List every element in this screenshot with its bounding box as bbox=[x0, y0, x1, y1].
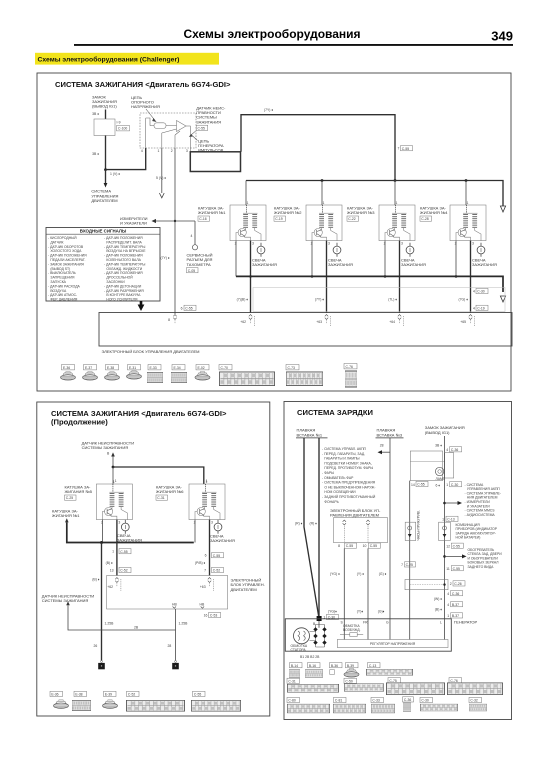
wire: fuse3 down to regulator bbox=[389, 438, 391, 640]
svg-text:(Продолжение): (Продолжение) bbox=[51, 418, 108, 427]
svg-text:ЗАПУСКА: ЗАПУСКА bbox=[50, 280, 66, 284]
svg-text:НОМ ОСВЕЩЕНИИ: НОМ ОСВЕЩЕНИИ bbox=[324, 490, 356, 494]
svg-text:+62: +62 bbox=[240, 320, 246, 324]
node: coil4 tap bbox=[465, 179, 468, 182]
svg-text:4: 4 bbox=[447, 592, 449, 596]
svg-text:C-55: C-55 bbox=[213, 554, 220, 558]
svg-text:ЖИГАНИЯ №6: ЖИГАНИЯ №6 bbox=[156, 489, 184, 494]
svg-text:ЗАЖИГАНИЯ: ЗАЖИГАНИЯ bbox=[117, 538, 142, 543]
svg-text:L: L bbox=[440, 620, 442, 624]
svg-text:C-30: C-30 bbox=[451, 483, 458, 487]
svg-text:- ДАТЧИК РАСХОДА: - ДАТЧИК РАСХОДА bbox=[48, 284, 81, 288]
svg-text:6 ♦: 6 ♦ bbox=[435, 484, 440, 488]
svg-text:ВСТАВКА №3: ВСТАВКА №3 bbox=[377, 432, 403, 437]
wire: coil4 ground to bus bbox=[455, 241, 457, 277]
wire: ECU FR to generator bbox=[343, 548, 345, 639]
arrow: fuse3 loads branch bbox=[378, 450, 391, 454]
ECU pin coil1 bbox=[240, 315, 254, 327]
wire: coil6 ground bbox=[194, 520, 196, 543]
svg-text:(B) ♦: (B) ♦ bbox=[435, 607, 442, 611]
svg-text:(YG)♦: (YG)♦ bbox=[328, 610, 337, 614]
svg-text:ВОЗБУЖД.: ВОЗБУЖД. bbox=[343, 628, 361, 632]
svg-text:(Y)♦: (Y)♦ bbox=[357, 610, 364, 614]
svg-text:C-50: C-50 bbox=[345, 679, 352, 683]
connector row3b: C-50 bbox=[344, 678, 384, 691]
connector row: E-31 bbox=[127, 365, 142, 380]
svg-text:C-52: C-52 bbox=[128, 693, 135, 697]
svg-text:13: 13 bbox=[110, 569, 114, 573]
svg-text:C-25: C-25 bbox=[406, 563, 413, 567]
svg-text:- ДАТЧИК ПОЛОЖЕНИЯ: - ДАТЧИК ПОЛОЖЕНИЯ bbox=[48, 254, 87, 258]
svg-text:ЗАЖИГАНИЯ: ЗАЖИГАНИЯ bbox=[196, 119, 221, 124]
pin label 2 C-26 bbox=[450, 581, 465, 586]
spark plug 6 label bbox=[210, 533, 235, 543]
wire: feed line to coils bbox=[241, 115, 395, 181]
svg-text:- ПЕРЕД. ГАБАРИТЫ, ЗАД.: - ПЕРЕД. ГАБАРИТЫ, ЗАД. bbox=[322, 452, 365, 456]
arrow: to defogger bbox=[445, 554, 467, 558]
svg-text:- ФАРЫ: - ФАРЫ bbox=[322, 471, 334, 475]
connector row3a: C-13 bbox=[366, 663, 412, 676]
svg-text:(R) ♦: (R) ♦ bbox=[295, 522, 303, 526]
svg-text:12: 12 bbox=[446, 544, 450, 548]
field winding resistor bbox=[340, 633, 363, 637]
connector row3c: C-36 bbox=[403, 697, 414, 712]
pin label 1 B-37 bbox=[447, 613, 462, 618]
connector row: C-73 bbox=[286, 365, 323, 386]
svg-text:C-75: C-75 bbox=[389, 679, 396, 683]
svg-text:C-52: C-52 bbox=[213, 569, 220, 573]
svg-text:- ЗАДНИЙ ПРОТИВОТУМАННЫЙ: - ЗАДНИЙ ПРОТИВОТУМАННЫЙ bbox=[322, 495, 376, 499]
pin label 7 C-55 bbox=[398, 146, 413, 151]
svg-text:C-36: C-36 bbox=[451, 448, 458, 452]
svg-text:8: 8 bbox=[168, 318, 170, 322]
wire: feed to coil6 bbox=[113, 467, 204, 484]
wire: ECU G to generator bbox=[367, 548, 369, 639]
ignition coil 3 bbox=[379, 201, 415, 246]
pin label 16 C-53 bbox=[204, 612, 221, 617]
wire: coil1 ground to bus bbox=[235, 241, 237, 277]
svg-text:- ДАТЧИК ПОЛОЖЕНИЯ: - ДАТЧИК ПОЛОЖЕНИЯ bbox=[104, 254, 143, 258]
wire: meter to generator L bbox=[444, 452, 446, 639]
connector row3a: B-16 bbox=[305, 663, 323, 678]
connector row2: C-52 bbox=[126, 691, 184, 711]
svg-text:C-13: C-13 bbox=[369, 664, 376, 668]
svg-text:ЖИГАНИЯ №5: ЖИГАНИЯ №5 bbox=[65, 489, 93, 494]
wire: battery feed a bbox=[304, 438, 319, 618]
svg-text:СИСТЕМА ЗАЖИГАНИЯ <Двигатель 6: СИСТЕМА ЗАЖИГАНИЯ <Двигатель 6G74-GDI> bbox=[55, 80, 231, 89]
svg-text:1: 1 bbox=[447, 614, 449, 618]
svg-text:- ДАТЧИК ПОЛОЖЕНИЯ: - ДАТЧИК ПОЛОЖЕНИЯ bbox=[104, 236, 143, 240]
node: ignition feed junction bbox=[104, 168, 107, 171]
spark plug 2 label bbox=[328, 258, 353, 268]
svg-text:C-53: C-53 bbox=[210, 614, 217, 618]
charge warning lamp bbox=[435, 467, 445, 481]
input signals list left column bbox=[48, 236, 87, 302]
svg-text:C-55: C-55 bbox=[417, 483, 424, 487]
node: coil feed junction bbox=[112, 466, 115, 469]
wire: bus to coil3 pin1 bbox=[394, 181, 396, 206]
svg-text:(7Y) ♦: (7Y) ♦ bbox=[264, 108, 273, 112]
ignition failure sensor dashed box bbox=[140, 113, 196, 148]
svg-text:НВ: НВ bbox=[172, 603, 177, 607]
svg-text:C-80: C-80 bbox=[288, 699, 295, 703]
wire color labels above generator bbox=[328, 610, 385, 614]
svg-text:2В: 2В bbox=[134, 626, 139, 630]
svg-text:ФОНАРЬ: ФОНАРЬ bbox=[324, 500, 339, 504]
svg-text:- КИСЛОРОДНЫЙ: - КИСЛОРОДНЫЙ bbox=[48, 236, 77, 240]
svg-text:О НЕ ВЫКЛЮЧЕННОМ НАРУЖ-: О НЕ ВЫКЛЮЧЕННОМ НАРУЖ- bbox=[324, 485, 375, 489]
svg-text:ХОЛОСТОГО ХОДА: ХОЛОСТОГО ХОДА bbox=[50, 249, 82, 253]
svg-text:B-37: B-37 bbox=[452, 614, 459, 618]
svg-text:B-36: B-36 bbox=[331, 664, 338, 668]
connector row3c: C-33 bbox=[371, 697, 395, 713]
svg-text:C-55: C-55 bbox=[120, 550, 127, 554]
svg-text:E-02: E-02 bbox=[198, 366, 205, 370]
connector row: E-33 bbox=[147, 365, 163, 383]
node: coil4 ground on bus bbox=[455, 275, 458, 278]
svg-text:+63: +63 bbox=[200, 585, 206, 589]
svg-text:- СИСТЕМА УПРАВЛ. АКПП: - СИСТЕМА УПРАВЛ. АКПП bbox=[322, 447, 367, 451]
svg-text:(7)(B) ♦: (7)(B) ♦ bbox=[237, 298, 249, 302]
svg-text:(W) ♦: (W) ♦ bbox=[434, 597, 442, 601]
coil 2 label bbox=[274, 206, 302, 222]
frame: charging system bbox=[284, 402, 512, 720]
wire: tachometer signal bbox=[174, 148, 176, 314]
coil supply bus bbox=[246, 181, 503, 207]
connector row2: E-36 bbox=[50, 691, 69, 708]
ignition coil 6 bbox=[189, 480, 225, 525]
ground: coil ground earth bbox=[98, 661, 105, 670]
ECU pin coil6 bbox=[200, 578, 214, 592]
svg-text:1.25В: 1.25В bbox=[105, 622, 115, 626]
rectifier diode bridge bbox=[310, 625, 327, 648]
svg-text:C-33: C-33 bbox=[372, 699, 379, 703]
svg-text:4: 4 bbox=[191, 234, 193, 238]
svg-text:C-36: C-36 bbox=[452, 592, 459, 596]
node: IG1 distribution junction bbox=[443, 502, 446, 505]
yellow section bar bbox=[35, 53, 219, 65]
ground: ECU ground earth bbox=[172, 661, 179, 670]
node: coil2 ground on bus bbox=[311, 275, 314, 278]
svg-text:28: 28 bbox=[380, 443, 384, 447]
svg-text:1: 1 bbox=[158, 149, 160, 153]
spark plug 3 label bbox=[401, 258, 426, 268]
coil 4 label bbox=[420, 206, 448, 222]
svg-text:РАВЛЕНИЯ ДВИГАТЕЛЕМ: РАВЛЕНИЯ ДВИГАТЕЛЕМ bbox=[330, 513, 379, 518]
label: reference voltage circuit bbox=[131, 95, 160, 122]
label: gauges and indicators bbox=[120, 216, 148, 226]
wire arrow up to bottom sensor label bbox=[66, 601, 175, 630]
pin label 7 on meter output wire bbox=[401, 562, 415, 567]
svg-text:C-30: C-30 bbox=[477, 290, 484, 294]
svg-text:(7Y) ♦: (7Y) ♦ bbox=[161, 256, 170, 260]
label: ignition failure sensor bbox=[189, 106, 226, 137]
ground bus bbox=[236, 276, 503, 292]
connector row3b: C-75 bbox=[386, 678, 444, 695]
svg-text:3В ♦: 3В ♦ bbox=[92, 152, 99, 156]
svg-text:B-37: B-37 bbox=[452, 603, 459, 607]
stator winding bbox=[294, 628, 310, 644]
internal wires bbox=[146, 118, 191, 152]
fuse box I-9 bbox=[94, 119, 115, 136]
svg-text:ЗАЖИГАНИЯ: ЗАЖИГАНИЯ bbox=[252, 262, 277, 267]
svg-text:C-30: C-30 bbox=[421, 699, 428, 703]
svg-text:ДВИГАТЕЛЕМ: ДВИГАТЕЛЕМ bbox=[231, 587, 257, 592]
ECU label (charging) bbox=[330, 508, 381, 518]
connector row: C-76 bbox=[344, 364, 357, 387]
noise capacitor box bbox=[405, 580, 448, 590]
wire: coil5 control to ECU bbox=[116, 520, 118, 576]
label: to ignition coil no.1 arrow bbox=[52, 508, 80, 522]
svg-text:- ДАТЧИК АТМОС-: - ДАТЧИК АТМОС- bbox=[48, 293, 77, 297]
wire: feed to coil5 bbox=[112, 467, 114, 484]
svg-text:8: 8 bbox=[338, 544, 340, 548]
wire: coil5 ground bbox=[101, 520, 103, 543]
fusible link no.1 bbox=[296, 428, 328, 438]
svg-text:+62: +62 bbox=[107, 585, 113, 589]
wire: ignition IG1 down bbox=[444, 436, 446, 452]
svg-text:C-70: C-70 bbox=[221, 366, 228, 370]
ECU charging pins bbox=[343, 520, 370, 543]
svg-text:26: 26 bbox=[94, 644, 98, 648]
spark plug 5 label bbox=[117, 533, 142, 542]
svg-text:В: В bbox=[107, 452, 110, 456]
connector row3c: C-80 bbox=[287, 697, 330, 713]
svg-text:3В ♦: 3В ♦ bbox=[435, 443, 442, 447]
strip tag C-30 bbox=[473, 288, 488, 293]
svg-text:4: 4 bbox=[141, 149, 143, 153]
pin label 4 B-37 bbox=[447, 602, 462, 607]
wire: coil3 ground to bus bbox=[384, 241, 386, 277]
svg-text:ЖИГАНИЯ №3: ЖИГАНИЯ №3 bbox=[347, 210, 375, 215]
pin label 4 C-36 bbox=[446, 447, 461, 452]
battery charge indicator box bbox=[439, 522, 451, 540]
svg-text:C-55: C-55 bbox=[185, 306, 192, 310]
ignition coil 2 bbox=[306, 201, 342, 246]
svg-text:ЧАСЫ-ПРИКУРИВ.: ЧАСЫ-ПРИКУРИВ. bbox=[417, 510, 421, 540]
svg-text:E-36: E-36 bbox=[63, 366, 70, 370]
input signals box bbox=[46, 228, 160, 302]
svg-text:НВ: НВ bbox=[200, 603, 205, 607]
ECU pin coil3 bbox=[389, 315, 403, 327]
svg-text:ОХЛАЖД. ЖИДКОСТИ: ОХЛАЖД. ЖИДКОСТИ bbox=[106, 267, 142, 271]
meter sub box bbox=[445, 453, 454, 478]
svg-text:- ВЫКЛЮЧАТЕЛЬ: - ВЫКЛЮЧАТЕЛЬ bbox=[48, 271, 77, 275]
svg-text:4: 4 bbox=[473, 290, 475, 294]
svg-text:НОЙ БАТАРЕИ): НОЙ БАТАРЕИ) bbox=[456, 536, 481, 540]
svg-text:(7G) ♦: (7G) ♦ bbox=[459, 298, 469, 302]
node: coil5 ground junction bbox=[100, 541, 103, 544]
svg-text:ГЕНЕРАТОР: ГЕНЕРАТОР bbox=[454, 619, 478, 624]
svg-text:E-39: E-39 bbox=[105, 693, 112, 697]
svg-text:6: 6 bbox=[181, 307, 183, 311]
svg-text:C-26: C-26 bbox=[454, 582, 461, 586]
pin label 4 C-36 bbox=[447, 591, 462, 596]
ECU box bbox=[99, 313, 512, 347]
pin label 12 C-55 bbox=[446, 543, 463, 548]
spark plug 1 label bbox=[252, 258, 277, 268]
label: engine control system bbox=[91, 189, 118, 204]
svg-text:+63: +63 bbox=[316, 320, 322, 324]
svg-text:C-32: C-32 bbox=[470, 699, 477, 703]
svg-text:1 (V) ♦: 1 (V) ♦ bbox=[110, 172, 120, 176]
label: ignition failure sensor (top) bbox=[82, 441, 135, 456]
svg-text:ГАБАРИТЫ И ЛАМПЫ: ГАБАРИТЫ И ЛАМПЫ bbox=[324, 457, 359, 461]
svg-text:1.25В: 1.25В bbox=[179, 622, 189, 626]
svg-text:E-37: E-37 bbox=[85, 366, 92, 370]
svg-text:2: 2 bbox=[450, 582, 452, 586]
svg-text:5 (V) ♦: 5 (V) ♦ bbox=[156, 176, 166, 180]
svg-text:ЗАЖИГАНИЯ: ЗАЖИГАНИЯ bbox=[401, 262, 426, 267]
svg-text:C-55: C-55 bbox=[198, 126, 205, 130]
wire: ground bus down bbox=[101, 543, 103, 661]
svg-text:ВОЗДУХА: ВОЗДУХА bbox=[50, 289, 67, 293]
svg-text:(7Y) ♦: (7Y) ♦ bbox=[315, 298, 324, 302]
wire arrow up to sensor label bbox=[111, 452, 115, 467]
label: ignition failure sensor (bottom) bbox=[42, 593, 95, 603]
svg-text:- ЗАМОК ЗАЖИГАНИЯ: - ЗАМОК ЗАЖИГАНИЯ bbox=[48, 262, 84, 266]
ECU ground pin 16 bbox=[200, 603, 205, 609]
wire: coil2 control to ECU bbox=[326, 241, 328, 313]
strip tag C-19 bbox=[473, 305, 488, 310]
svg-text:C-31: C-31 bbox=[157, 496, 164, 500]
svg-text:СИСТЕМА ЗАРЯДКИ: СИСТЕМА ЗАРЯДКИ bbox=[297, 408, 373, 417]
svg-text:В КОНТУРЕ ВАКУУМ-: В КОНТУРЕ ВАКУУМ- bbox=[106, 293, 141, 297]
svg-text:ЗАДНЕГО ВИДА: ЗАДНЕГО ВИДА bbox=[468, 565, 495, 569]
connector row3a: B-36 bbox=[330, 663, 343, 675]
svg-text:B-39: B-39 bbox=[347, 664, 354, 668]
wire: coil1 control to ECU bbox=[250, 241, 252, 313]
connector row3c: C-30 bbox=[420, 697, 458, 711]
ground bus to coil1 bbox=[67, 522, 194, 542]
svg-text:C-22: C-22 bbox=[348, 217, 355, 221]
ECU pin coil5 bbox=[107, 578, 121, 592]
connector row: C-70 bbox=[219, 365, 275, 386]
label: ignition switch IG1 bbox=[425, 425, 465, 435]
svg-text:И УКАЗАТЕЛИ: И УКАЗАТЕЛИ bbox=[120, 220, 147, 225]
frame: ignition system bbox=[37, 73, 511, 391]
spark plug 2 bbox=[333, 243, 341, 257]
svg-text:I-9: I-9 bbox=[117, 121, 121, 125]
arrow: bus continuation bbox=[500, 206, 505, 212]
svg-text:6: 6 bbox=[205, 554, 207, 558]
svg-text:4: 4 bbox=[446, 448, 448, 452]
connector tag C-100 bbox=[117, 126, 130, 131]
svg-text:ПОДСВЕТКИ НОМЕР. ЗНАКА,: ПОДСВЕТКИ НОМЕР. ЗНАКА, bbox=[324, 461, 371, 465]
wire: coil3 control to ECU bbox=[399, 241, 401, 313]
svg-text:C-76: C-76 bbox=[346, 365, 353, 369]
pin label 11 C-55 bbox=[446, 566, 463, 571]
clock illumination lamp box bbox=[405, 522, 416, 540]
ECU label (continued) bbox=[231, 578, 265, 592]
svg-text:(7L) ♦: (7L) ♦ bbox=[388, 298, 397, 302]
svg-text:- АУДИОСИСТЕМА: - АУДИОСИСТЕМА bbox=[465, 513, 496, 517]
connector row: E-02 bbox=[195, 365, 210, 381]
wire color labels row bbox=[237, 298, 469, 302]
svg-text:C-81: C-81 bbox=[335, 699, 342, 703]
svg-text:C-55: C-55 bbox=[194, 693, 201, 697]
wire: bus to coil2 pin1 bbox=[321, 181, 323, 206]
svg-text:ЖИГАНИЯ №1: ЖИГАНИЯ №1 bbox=[52, 513, 80, 518]
node: coil2 tap bbox=[321, 179, 324, 182]
svg-text:ЗАСЛОНКИ: ЗАСЛОНКИ bbox=[106, 280, 125, 284]
svg-text:- ДАТЧИК ПОЛОЖЕНИЯ: - ДАТЧИК ПОЛОЖЕНИЯ bbox=[104, 271, 143, 275]
wire: bus to coil4 pin1 bbox=[465, 181, 467, 206]
svg-text:(G)♦: (G)♦ bbox=[378, 610, 385, 614]
ECU pin coil2 bbox=[316, 315, 330, 327]
wire: ECU ground to earth bbox=[175, 609, 177, 661]
connector row3b: C-76 bbox=[447, 678, 502, 695]
wire: switch to junction bbox=[105, 136, 107, 170]
connector row3a: B-14 bbox=[289, 663, 302, 678]
wire: battery feed b bbox=[318, 438, 320, 618]
svg-text:ВСТАВКА №1: ВСТАВКА №1 bbox=[297, 432, 323, 437]
connector row2: E-38 bbox=[72, 691, 91, 710]
svg-text:C-05: C-05 bbox=[188, 269, 195, 273]
svg-text:C-100: C-100 bbox=[118, 127, 127, 131]
connector row2: E-39 bbox=[103, 691, 118, 708]
generator internal pin stubs bbox=[313, 620, 442, 627]
resistor (reference) bbox=[154, 123, 166, 129]
connector row3c: C-81 bbox=[333, 697, 366, 713]
pin label 8 C-55 bbox=[338, 543, 356, 548]
connector row3c: C-32 bbox=[469, 697, 487, 711]
svg-text:(ВЫВОД IG1): (ВЫВОД IG1) bbox=[92, 104, 117, 109]
svg-text:10: 10 bbox=[363, 544, 367, 548]
combination meter box bbox=[410, 451, 442, 481]
svg-text:1: 1 bbox=[446, 483, 448, 487]
wire: junction to pin 4 bbox=[106, 148, 146, 170]
svg-text:ВХОДНЫЕ СИГНАЛЫ: ВХОДНЫЕ СИГНАЛЫ bbox=[80, 229, 127, 234]
spark plug 4 bbox=[477, 243, 485, 257]
svg-text:- ДАТЧИК ОБОРОТОВ: - ДАТЧИК ОБОРОТОВ bbox=[48, 245, 84, 249]
pin label 1 C-13 bbox=[442, 516, 458, 521]
svg-text:C-55: C-55 bbox=[402, 147, 409, 151]
svg-text:ЗАЖИГАНИЯ: ЗАЖИГАНИЯ bbox=[328, 262, 353, 267]
wire: ignition switch feed bbox=[105, 110, 107, 120]
wire: bus to coil1 pin1 bbox=[245, 181, 247, 206]
wire color labels mid bbox=[330, 572, 387, 576]
svg-text:- ДАТЧИК ДЕТОНАЦИИ: - ДАТЧИК ДЕТОНАЦИИ bbox=[104, 284, 142, 288]
svg-text:- ДАТЧИК ТЕМПЕРАТУРЫ: - ДАТЧИК ТЕМПЕРАТУРЫ bbox=[104, 245, 145, 249]
ignition coil 5 bbox=[96, 480, 132, 525]
node: coil1 control on bus bbox=[249, 275, 252, 278]
label: combination meter indicator bbox=[456, 523, 498, 540]
svg-text:- СИСТЕМА ПРЕДУПРЕЖДЕНИЯ: - СИСТЕМА ПРЕДУПРЕЖДЕНИЯ bbox=[322, 481, 376, 485]
pin label 14 C-55 bbox=[411, 481, 428, 487]
svg-text:C-19: C-19 bbox=[275, 217, 282, 221]
pulse generator box bbox=[190, 152, 240, 172]
svg-text:C-31: C-31 bbox=[288, 679, 295, 683]
svg-text:- ДАТЧИК ТЕМПЕРАТУРЫ: - ДАТЧИК ТЕМПЕРАТУРЫ bbox=[104, 262, 145, 266]
wire: coil6 control to ECU bbox=[209, 520, 211, 576]
svg-text:1: 1 bbox=[442, 517, 444, 521]
svg-text:РЕГУЛЯТОР НАПРЯЖЕНИЯ: РЕГУЛЯТОР НАПРЯЖЕНИЯ bbox=[370, 642, 416, 646]
wire: to gauges arrow bbox=[152, 219, 196, 223]
svg-text:СИСТЕМЫ ЗАЖИГАНИЯ: СИСТЕМЫ ЗАЖИГАНИЯ bbox=[42, 598, 89, 603]
svg-text:ЖИГАНИЯ №4: ЖИГАНИЯ №4 bbox=[420, 210, 448, 215]
node: defogger branch junction bbox=[443, 555, 446, 558]
svg-text:C-52: C-52 bbox=[120, 569, 127, 573]
svg-text:(В) ♦: (В) ♦ bbox=[92, 577, 99, 581]
svg-text:C-55: C-55 bbox=[453, 567, 460, 571]
field winding label bbox=[343, 624, 361, 632]
svg-text:E-36: E-36 bbox=[51, 693, 58, 697]
svg-text:C-28: C-28 bbox=[421, 217, 428, 221]
ECU box (charging) bbox=[334, 518, 388, 543]
svg-text:СТАТОРА: СТАТОРА bbox=[291, 648, 307, 652]
coil6 wire labels bbox=[195, 553, 224, 573]
